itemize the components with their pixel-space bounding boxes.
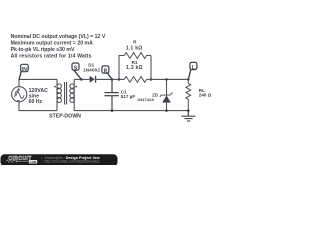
wire: secondary top rail to diode bbox=[74, 78, 89, 80]
junction C1 top node bbox=[111, 78, 114, 81]
svg-text:240 Ω: 240 Ω bbox=[199, 93, 212, 98]
svg-text:IN: IN bbox=[22, 67, 27, 73]
wire: parallel right riser bbox=[150, 56, 152, 80]
footer bar bbox=[1, 154, 118, 166]
resistor R (1.1 k) top branch bbox=[124, 53, 151, 59]
wire: parallel left riser bbox=[119, 56, 124, 80]
svg-text:1N4742A: 1N4742A bbox=[137, 97, 154, 102]
svg-text:LAB: LAB bbox=[30, 160, 37, 164]
junction left parallel node bbox=[118, 78, 121, 81]
wire: primary loop bottom rail bbox=[19, 101, 57, 110]
resistor R1 (1.3 k) in rail bbox=[124, 77, 151, 83]
svg-text:60 Hz: 60 Hz bbox=[29, 99, 43, 105]
svg-text:1.3 kΩ: 1.3 kΩ bbox=[126, 65, 143, 71]
secondary polarity dot bbox=[75, 86, 77, 88]
svg-text:R: R bbox=[104, 68, 108, 74]
svg-text:Maximum output current = 20 mA: Maximum output current = 20 mA bbox=[11, 41, 94, 47]
primary lead bbox=[56, 79, 58, 110]
AC source V1 bbox=[12, 87, 27, 102]
svg-text:L: L bbox=[192, 65, 195, 71]
svg-text:1.1 kΩ: 1.1 kΩ bbox=[126, 45, 143, 51]
probe IN bbox=[19, 64, 28, 79]
junction RL top node bbox=[187, 78, 190, 81]
junction RL bottom node bbox=[187, 109, 190, 112]
svg-text:1N4002: 1N4002 bbox=[83, 68, 100, 73]
junction C1 bottom node bbox=[111, 109, 114, 112]
capacitor C1 bbox=[105, 79, 119, 110]
wire: primary loop top rail bbox=[19, 79, 57, 86]
diode D1 bbox=[83, 63, 100, 83]
svg-text:STEP-DOWN: STEP-DOWN bbox=[49, 114, 81, 120]
wire: parallel node to RL node bbox=[151, 78, 188, 80]
core bbox=[65, 82, 67, 105]
junction S node bbox=[80, 78, 83, 81]
svg-text:All resistors rated for 1/4 Wa: All resistors rated for 1/4 Watts bbox=[11, 53, 92, 59]
transformer T1 bbox=[54, 79, 77, 110]
probe L bbox=[188, 62, 197, 79]
separator bbox=[41, 156, 43, 163]
svg-text:Pk-to-pk VL ripple ≤30 mV: Pk-to-pk VL ripple ≤30 mV bbox=[11, 47, 75, 53]
zener diode ZD bbox=[137, 79, 173, 110]
svg-text:http://circuitlab.com/c6j26dmh: http://circuitlab.com/c6j26dmhu8oc bbox=[44, 160, 100, 164]
junction right parallel node bbox=[150, 78, 153, 81]
svg-text:517 µF: 517 µF bbox=[121, 94, 136, 99]
secondary lead bbox=[73, 79, 75, 110]
probe R bbox=[102, 66, 112, 80]
junction ZD bottom node bbox=[165, 109, 168, 112]
wire: C1 node to R-parallel left node bbox=[112, 78, 124, 80]
svg-text:Nominal DC output voltage (VL): Nominal DC output voltage (VL) = 12 V bbox=[11, 34, 106, 40]
primary polarity dot bbox=[54, 86, 56, 88]
secondary coil loops bbox=[70, 84, 74, 88]
ground bbox=[181, 111, 195, 121]
resistor RL vertical bbox=[186, 79, 191, 110]
junction ZD top node bbox=[165, 78, 168, 81]
primary coil loops bbox=[57, 84, 61, 88]
wire: secondary bottom rail bbox=[74, 110, 188, 112]
wire: diode to C1 node bbox=[96, 78, 112, 80]
probe S bbox=[72, 63, 81, 79]
